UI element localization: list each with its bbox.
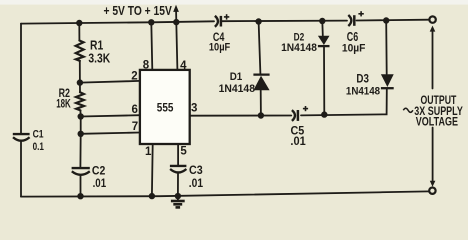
svg-text:2: 2 bbox=[131, 71, 137, 83]
svg-text:.01: .01 bbox=[93, 176, 107, 190]
wire left rail lower bbox=[20, 141, 22, 197]
node pin7 junction bbox=[78, 131, 84, 137]
capacitor C6 bbox=[348, 11, 364, 26]
svg-text:3.3K: 3.3K bbox=[88, 51, 110, 66]
svg-text:8: 8 bbox=[143, 59, 150, 71]
capacitor C4 bbox=[215, 14, 229, 27]
svg-text:1: 1 bbox=[145, 146, 152, 158]
svg-text:0.1: 0.1 bbox=[33, 141, 44, 153]
capacitor C2 bbox=[72, 168, 90, 175]
svg-text:5: 5 bbox=[180, 145, 187, 157]
svg-text:.01: .01 bbox=[290, 135, 306, 148]
wire pin 1 bbox=[151, 144, 154, 196]
output bottom arrow head bbox=[430, 181, 436, 187]
wire D3 top lead bbox=[385, 21, 388, 75]
wire output bottom arrow shaft bbox=[432, 128, 434, 182]
node top rail D3 junction bbox=[383, 17, 389, 23]
node D2 bottom junction bbox=[321, 111, 327, 117]
svg-text:4: 4 bbox=[180, 60, 187, 72]
svg-text:10µF: 10µF bbox=[209, 41, 230, 53]
supply arrow head bbox=[173, 5, 179, 12]
output label sine symbol bbox=[403, 108, 413, 112]
node top rail supply junction bbox=[173, 19, 179, 25]
node pin3 D1 junction bbox=[258, 112, 264, 118]
svg-text:3: 3 bbox=[191, 102, 197, 114]
node pin2 R divider junction bbox=[77, 79, 83, 85]
ground bbox=[171, 201, 185, 207]
wire pin7 node to C2 bbox=[79, 134, 81, 167]
output top arrow head bbox=[430, 26, 436, 32]
svg-text:D1: D1 bbox=[230, 71, 243, 83]
capacitor C3 bbox=[170, 166, 187, 173]
node top rail pin8 junction bbox=[148, 19, 154, 25]
svg-text:1N4148: 1N4148 bbox=[219, 83, 255, 95]
svg-text:VOLTAGE: VOLTAGE bbox=[416, 114, 458, 128]
resistor R1 bbox=[76, 41, 84, 61]
svg-text:.01: .01 bbox=[189, 176, 204, 190]
wire bottom ground rail bbox=[21, 191, 429, 196]
wire D2 top lead bbox=[321, 21, 324, 36]
svg-text:1N4148: 1N4148 bbox=[281, 42, 317, 54]
svg-text:18K: 18K bbox=[56, 97, 71, 111]
node top rail D1 junction bbox=[255, 18, 261, 24]
svg-text:555: 555 bbox=[157, 100, 174, 114]
svg-text:C1: C1 bbox=[33, 129, 44, 141]
svg-text:1N4148: 1N4148 bbox=[346, 86, 380, 98]
wire pin 4 bbox=[176, 22, 177, 70]
node bottom rail pin1 junction bbox=[149, 193, 155, 199]
wire R1 to pin2 node bbox=[79, 61, 81, 83]
resistor R2 bbox=[76, 92, 84, 110]
node bottom rail ground junction bbox=[175, 193, 181, 199]
wire pin2 node to R2 bbox=[79, 83, 81, 92]
wire R2 to pin6 node bbox=[79, 110, 81, 116]
wire supply arrow shaft bbox=[175, 12, 177, 23]
wire D1 top lead bbox=[259, 22, 261, 74]
wire resistor chain top lead bbox=[78, 23, 80, 41]
op-amp U1 555 IC body bbox=[140, 70, 190, 144]
node pin6 junction bbox=[78, 113, 84, 119]
wire ground stub bbox=[177, 196, 179, 200]
output top terminal bbox=[429, 16, 435, 22]
wire output top arrow shaft bbox=[432, 31, 434, 89]
wire C5 to D3 corner bbox=[301, 90, 387, 116]
svg-text:7: 7 bbox=[132, 121, 138, 133]
wire pin 8 bbox=[151, 22, 152, 70]
diode D2 bbox=[318, 36, 330, 46]
wire pin 6 bbox=[81, 115, 140, 116]
svg-text:6: 6 bbox=[132, 104, 138, 116]
wire left rail upper bbox=[20, 24, 22, 134]
diode D3 bbox=[381, 74, 394, 88]
node top rail R1 junction bbox=[76, 20, 82, 26]
wire pin 5 lower bbox=[177, 174, 179, 196]
wire C2 to bottom rail bbox=[80, 176, 82, 196]
wire D2 bottom lead bbox=[323, 46, 325, 115]
capacitor C1 bbox=[13, 134, 30, 141]
output bottom terminal bbox=[429, 188, 435, 194]
svg-text:+ 5V TO + 15V: + 5V TO + 15V bbox=[104, 4, 173, 18]
node bottom rail C2 junction bbox=[77, 193, 83, 199]
scan margin top white band bbox=[0, 0, 468, 5]
wire top rail left segment bbox=[21, 21, 214, 23]
diode D1 bbox=[253, 75, 269, 91]
wire pin 5 upper bbox=[177, 144, 179, 165]
wire pin 2 bbox=[80, 81, 140, 83]
wire top rail middle segment bbox=[222, 20, 348, 23]
wire pin6 node to pin7 node bbox=[80, 117, 82, 134]
capacitor C5 bbox=[292, 106, 308, 121]
wire top rail right segment bbox=[357, 19, 430, 22]
wire pin 7 bbox=[81, 133, 140, 134]
svg-text:C3: C3 bbox=[189, 163, 203, 177]
wire pin 3 to C5 bbox=[190, 115, 292, 117]
svg-text:10µF: 10µF bbox=[342, 43, 366, 55]
svg-text:D3: D3 bbox=[356, 71, 369, 85]
node top rail D2 junction bbox=[319, 18, 325, 24]
wire D1 bottom lead bbox=[260, 90, 262, 115]
